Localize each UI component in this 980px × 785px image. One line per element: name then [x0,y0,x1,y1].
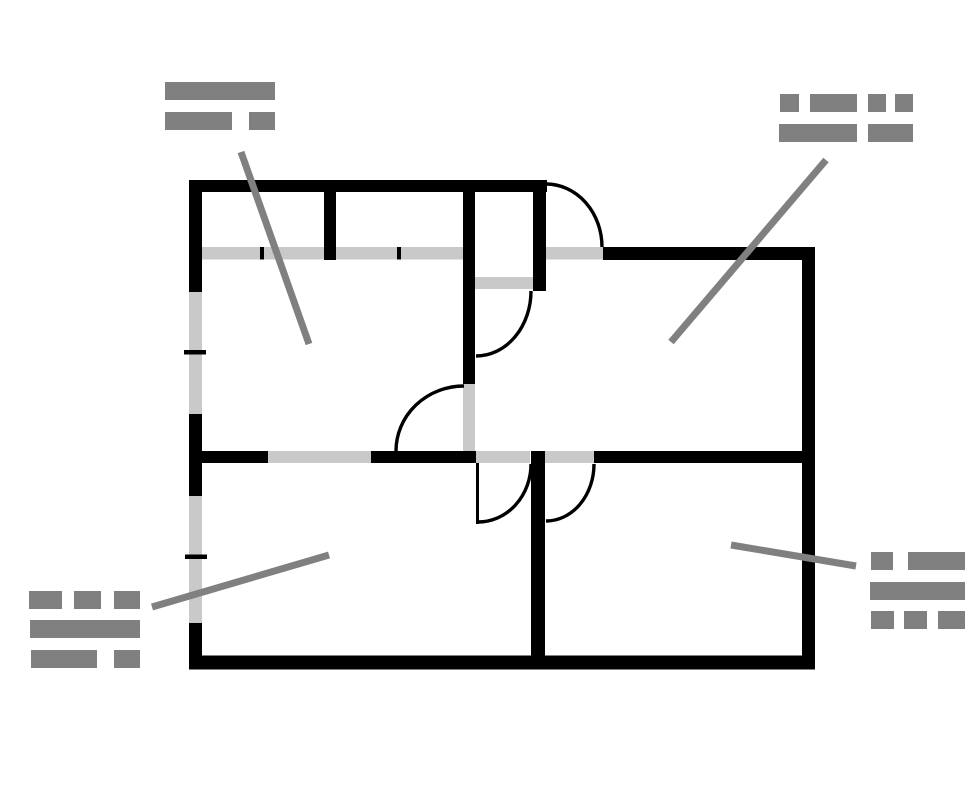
tick: closet band mullion 1 [260,247,264,260]
window band: closet front (top-left room) [202,247,463,260]
wall: top exterior [189,180,547,192]
door arc: top hall door [546,184,602,247]
wall: middle center segment [371,451,476,463]
label: top-left redacted row 1 [165,82,275,100]
wall: hallway west [463,192,475,384]
opening: top hall doorway [546,247,603,260]
wall: middle right segment [594,451,802,463]
tick: left window upper mark [184,350,206,355]
wall: top of right room [603,247,815,260]
door arc: vestibule door [476,291,531,356]
door arc: bottom-left room door [478,464,531,522]
label: top-right redacted row 2 [779,124,913,142]
label: bottom-left redacted row 2 [30,620,140,638]
door arc: hallway door into top-left room [396,386,464,451]
tick: left window lower mark [185,555,207,560]
wall: closet divider [324,192,336,260]
leader line: top-left label [241,152,309,344]
label: bottom-left redacted row 1 [29,591,140,609]
window: left wall upper glazing [189,292,202,414]
door arc: bottom-right room door [546,464,594,521]
wall: bottom rooms divider [531,451,545,670]
wall: bottom exterior [189,656,815,670]
leader line: bottom-right label [731,545,856,566]
opening: door to bottom-left room [476,451,530,463]
wall: vestibule east [533,180,546,291]
label: bottom-right redacted row 1 [871,552,965,570]
door leaf: bottom-left room door [476,463,479,524]
wall: left exterior middle [189,414,202,496]
leader line: bottom-left label [152,555,329,607]
label: top-right redacted row 1 [780,94,913,112]
label: bottom-right redacted row 3 [871,611,965,629]
wall: right exterior [802,247,815,669]
label: top-left redacted row 2 [165,112,275,130]
window: left wall lower glazing [189,496,202,623]
opening: hallway door to top-left room [463,384,475,451]
opening: vestibule doorway [475,277,533,289]
opening: middle wall left segment [268,451,371,463]
wall: left exterior upper [189,180,202,292]
wall: left exterior lower [189,623,202,669]
label: bottom-right redacted row 2 [870,582,965,600]
opening: door to bottom-right room [545,451,594,463]
leader line: top-right label [671,160,826,342]
label: bottom-left redacted row 3 [31,650,140,668]
wall: middle left segment [202,451,268,463]
tick: closet band mullion 2 [397,247,401,260]
